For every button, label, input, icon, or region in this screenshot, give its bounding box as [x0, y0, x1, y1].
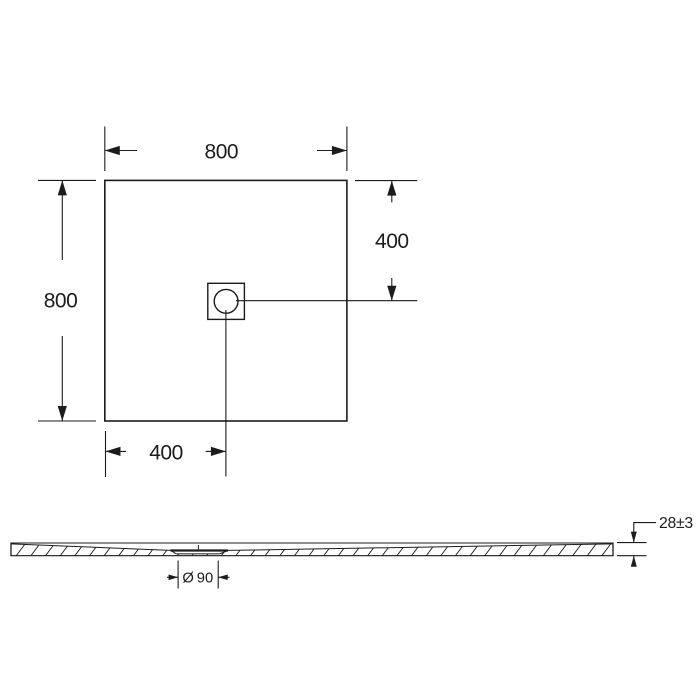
left 800 dimension: upper arrow and line — [58, 180, 67, 260]
diameter 90 dimension: text — [182, 571, 213, 587]
28 plus-minus 3 dimension: lower arrow — [631, 556, 637, 567]
drain square — [208, 283, 245, 319]
section view: drain recess right side — [220, 551, 228, 554]
top 800 dimension: text 800 — [205, 140, 239, 163]
28 plus-minus 3 dimension: text — [659, 515, 693, 532]
28 plus-minus 3 dimension: extension line top — [617, 542, 647, 544]
svg-text:400: 400 — [375, 230, 409, 253]
section view: right end edge — [612, 543, 614, 557]
section view: hatching — [15, 542, 627, 558]
left 800 dimension: extension line top — [38, 179, 96, 181]
section view: drain recess bold top line — [171, 549, 229, 551]
section view: left end edge — [10, 543, 12, 557]
diameter 90 dimension: left arrow (outside, pointing right) — [167, 575, 178, 581]
svg-text:800: 800 — [44, 289, 78, 312]
top 800 dimension: left arrow and stub — [105, 146, 137, 155]
section view: tray top rim line — [11, 542, 613, 544]
bottom 400 dimension: right arrow and stub — [206, 447, 226, 456]
28 plus-minus 3 dimension: extension line bottom — [617, 555, 647, 557]
svg-text:28±3: 28±3 — [659, 515, 693, 532]
28 plus-minus 3 dimension: upper arrow with leader — [631, 523, 656, 543]
drain circle — [214, 289, 238, 313]
top 800 dimension: right arrow and stub — [317, 146, 347, 155]
section view: sloped floor line right — [228, 544, 613, 551]
left 800 dimension: extension line bottom — [38, 420, 96, 422]
svg-text:400: 400 — [149, 441, 183, 464]
svg-text:Ø 90: Ø 90 — [182, 571, 213, 587]
diameter 90 dimension: extension line left — [177, 561, 179, 589]
section view: tray bottom line — [11, 555, 613, 557]
right 400 dimension: extension line top — [355, 180, 417, 182]
diameter 90 dimension: right arrow (outside, pointing left) — [218, 575, 229, 581]
svg-text:800: 800 — [205, 140, 239, 163]
section view: drain recess bottom line — [176, 553, 219, 555]
section view: drain center tick — [197, 545, 199, 549]
top 800 dimension: extension line left — [104, 127, 106, 172]
bottom 400 dimension: text 400 — [149, 441, 183, 464]
bottom 400 dimension: extension line left — [105, 431, 107, 477]
bottom 400 dimension: left arrow and stub — [106, 447, 127, 456]
left 800 dimension: text 800 — [44, 289, 78, 312]
left 800 dimension: lower arrow and line — [58, 336, 67, 421]
plan view: tray outline square 800x800 — [105, 180, 347, 421]
diameter 90 dimension: extension line right — [217, 561, 219, 589]
drain leader line vertical (to bottom 400 dim) — [225, 310, 227, 477]
top 800 dimension: extension line right — [346, 127, 348, 172]
right 400 dimension: upper arrow and stub — [387, 181, 396, 203]
right 400 dimension: text 400 — [375, 230, 409, 253]
drain leader line horizontal (to right 400 dim) — [236, 300, 417, 302]
section view: sloped floor line left — [11, 544, 171, 551]
right 400 dimension: lower arrow and stub — [387, 278, 396, 301]
section view: drain recess left side — [171, 551, 177, 554]
